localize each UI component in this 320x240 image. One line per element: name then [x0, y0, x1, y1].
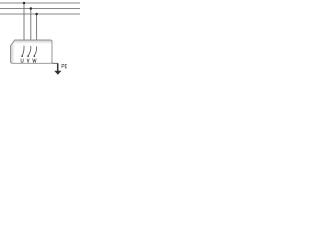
PE earth conductor	[57, 63, 59, 71]
junction dot on L3	[35, 13, 38, 16]
wire tap from L2	[30, 9, 32, 47]
terminal W	[33, 55, 35, 57]
terminal V	[27, 55, 29, 57]
junction dot on L1	[23, 2, 26, 5]
label U	[21, 59, 23, 63]
PE earth arrow	[54, 71, 61, 75]
wire L2 bus line	[0, 8, 80, 10]
label PE	[62, 65, 67, 69]
wire L1 bus line	[0, 2, 80, 4]
terminal U	[21, 55, 23, 57]
wire from box to PE drop	[52, 62, 58, 64]
wire tap from L1	[23, 3, 25, 46]
label V	[27, 59, 29, 63]
wire tap from L3	[36, 14, 38, 46]
wire V lead inside box	[28, 46, 31, 56]
label W	[33, 59, 37, 63]
motor terminal box body	[10, 40, 53, 65]
wire W lead inside box	[34, 46, 36, 55]
wire L3 bus line	[0, 13, 80, 15]
junction dot on L2	[30, 7, 33, 10]
wire U lead inside box	[22, 46, 24, 56]
